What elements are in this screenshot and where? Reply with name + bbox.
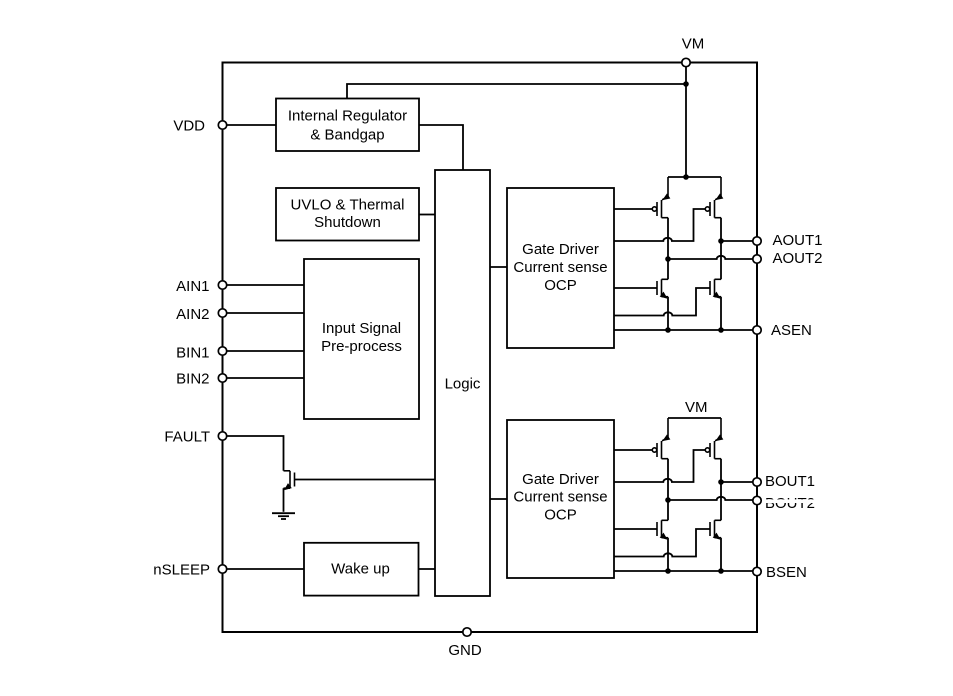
svg-text:nSLEEP: nSLEEP	[153, 561, 210, 578]
svg-text:BIN1: BIN1	[176, 344, 209, 361]
svg-text:Current sense: Current sense	[513, 489, 607, 506]
svg-text:UVLO & Thermal: UVLO & Thermal	[291, 196, 405, 213]
svg-text:Gate Driver: Gate Driver	[522, 241, 599, 258]
svg-text:BOUT2: BOUT2	[765, 495, 815, 512]
svg-text:VM: VM	[685, 399, 708, 416]
svg-text:AIN2: AIN2	[176, 306, 209, 323]
svg-text:& Bandgap: & Bandgap	[310, 126, 384, 143]
svg-text:Current sense: Current sense	[513, 259, 607, 276]
svg-text:VM: VM	[682, 35, 705, 52]
svg-text:Wake up: Wake up	[331, 560, 390, 577]
svg-text:Logic: Logic	[445, 375, 481, 392]
svg-text:Internal Regulator: Internal Regulator	[288, 107, 407, 124]
svg-text:OCP: OCP	[544, 277, 577, 294]
svg-text:BOUT1: BOUT1	[765, 473, 815, 490]
svg-text:GND: GND	[448, 642, 482, 659]
svg-text:Input Signal: Input Signal	[322, 320, 401, 337]
svg-text:FAULT: FAULT	[164, 428, 210, 445]
svg-text:Gate Driver: Gate Driver	[522, 471, 599, 488]
svg-text:OCP: OCP	[544, 506, 577, 523]
svg-text:AIN1: AIN1	[176, 278, 209, 295]
svg-text:ASEN: ASEN	[771, 322, 812, 339]
svg-text:Shutdown: Shutdown	[314, 214, 381, 231]
svg-text:BIN2: BIN2	[176, 370, 209, 387]
svg-text:VDD: VDD	[173, 117, 205, 134]
svg-text:AOUT1: AOUT1	[773, 232, 823, 249]
svg-text:Pre-process: Pre-process	[321, 338, 402, 355]
svg-text:BSEN: BSEN	[766, 564, 807, 581]
svg-text:AOUT2: AOUT2	[773, 250, 823, 267]
